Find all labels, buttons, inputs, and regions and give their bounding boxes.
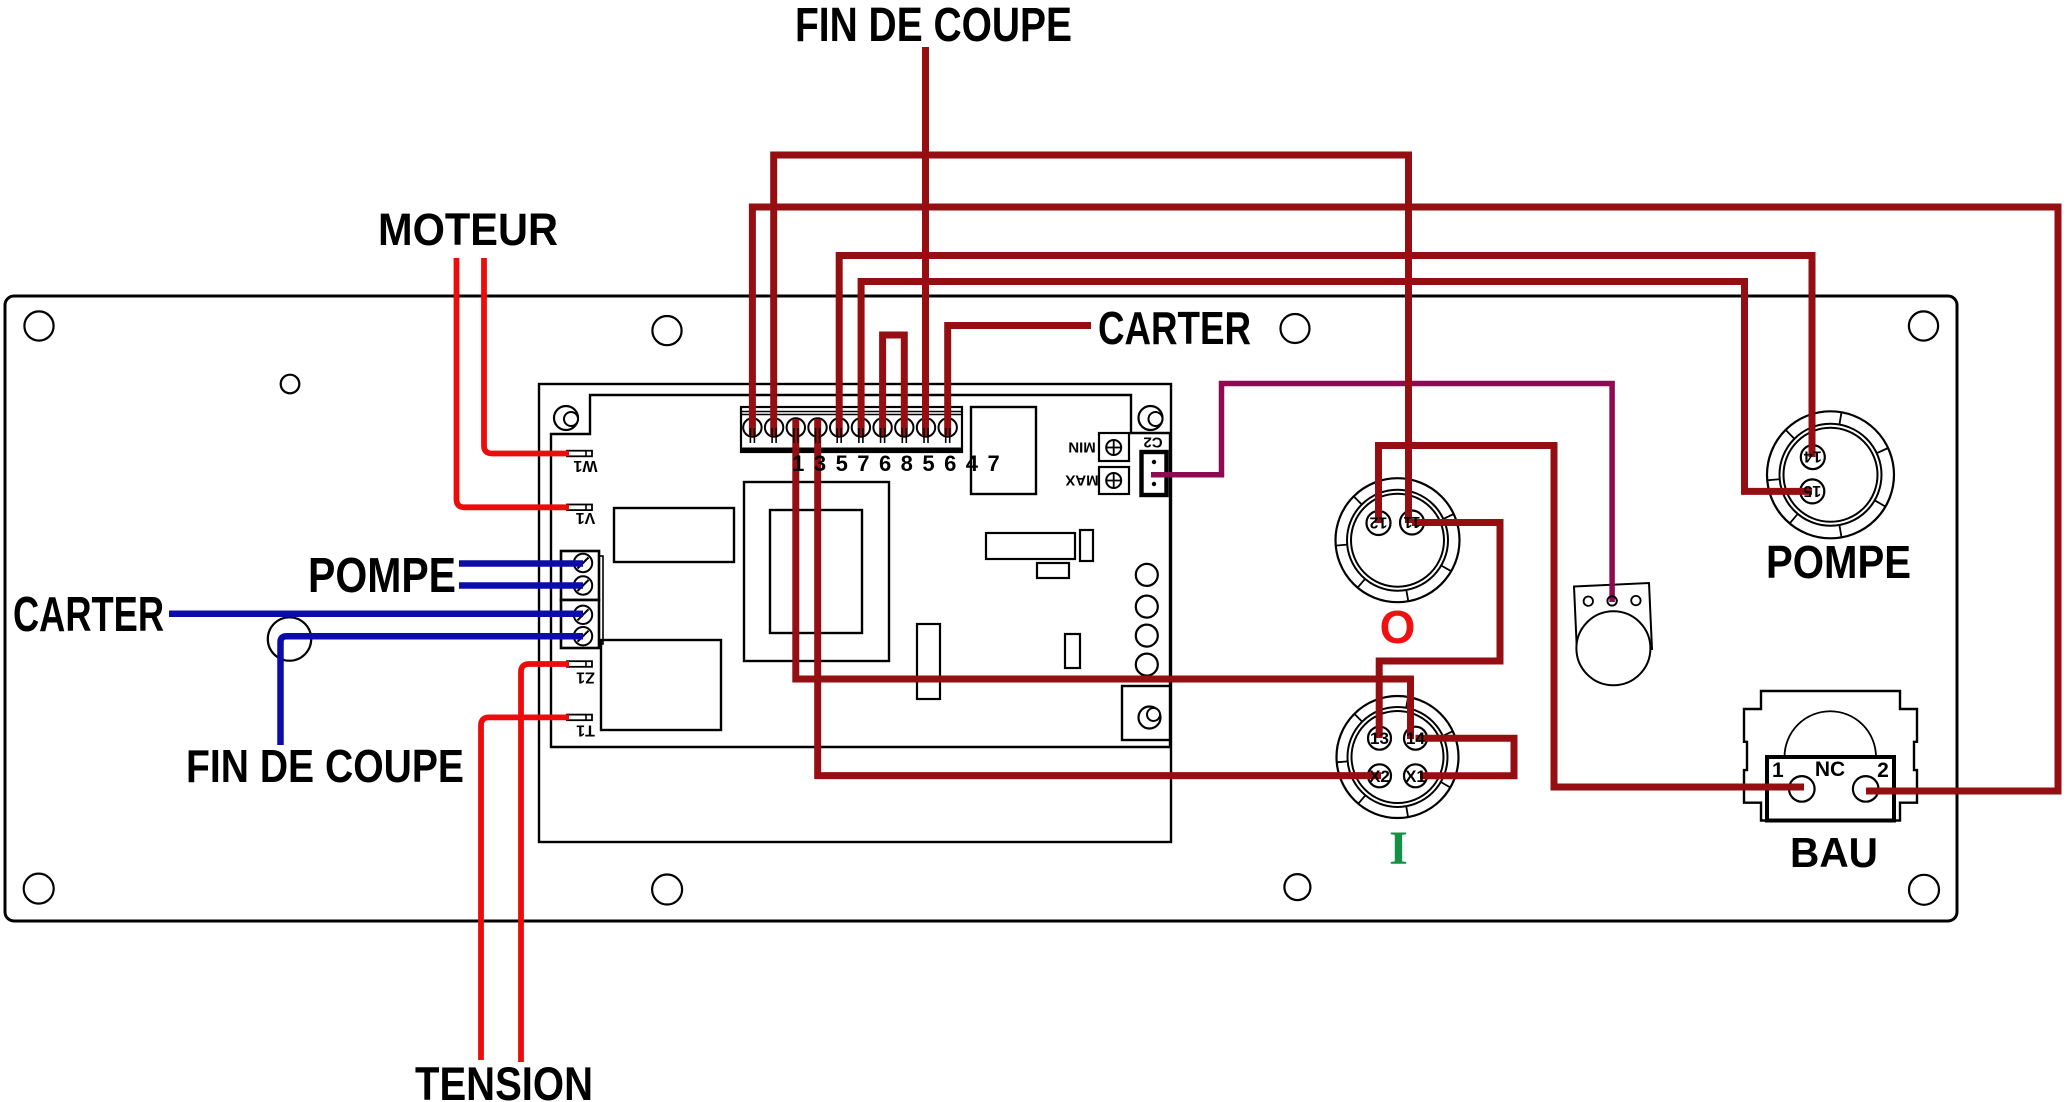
svg-text:BAU: BAU: [1790, 829, 1878, 876]
BAU cutout outline: [1744, 691, 1917, 821]
svg-text:13: 13: [1370, 729, 1389, 748]
hole bottom-left: [24, 874, 54, 904]
I pin 13: [1368, 727, 1391, 750]
svg-text:5: 5: [922, 451, 934, 476]
svg-text:CARTER: CARTER: [1098, 302, 1251, 354]
wire O pin11 to I pin13: [1379, 523, 1500, 739]
svg-text:FIN DE COUPE: FIN DE COUPE: [186, 740, 464, 792]
transformer outer: [744, 482, 889, 661]
spade terminal W1: [567, 451, 592, 457]
capacitor slot 2: [1065, 634, 1080, 668]
C2 pin dot 2: [1152, 482, 1156, 486]
svg-text:1: 1: [1772, 759, 1784, 782]
hole bottom mid-1: [652, 875, 682, 905]
strip screw slot 6: [858, 428, 860, 443]
buzzer hole mid: [1607, 596, 1616, 605]
LED 1: [1136, 564, 1158, 586]
wire FIN DE COUPE drop: [922, 47, 929, 436]
strip screw slot 10: [945, 428, 947, 443]
strip screw slot 8: [901, 428, 903, 443]
POMPE pin 15: [1800, 479, 1824, 503]
svg-text:X2: X2: [1369, 767, 1390, 786]
PCB screw top-right: [1139, 406, 1163, 430]
strip screw 4: [808, 418, 826, 436]
strip screw 10: [939, 418, 957, 436]
PCB board outline: [551, 395, 1170, 747]
strip screw slot 4: [815, 428, 817, 443]
trimmer MAX: [1099, 467, 1129, 494]
POMPE pin 14: [1801, 445, 1825, 469]
connector POMPE: [1767, 411, 1894, 538]
wire strip5 to POMPE pin14: [839, 256, 1812, 458]
svg-text:TENSION: TENSION: [415, 1057, 593, 1102]
block screw 1: [574, 554, 592, 572]
svg-text:C2: C2: [1143, 434, 1162, 451]
wire strip6 to POMPE pin15: [861, 282, 1812, 492]
connector O (arret): [1336, 478, 1460, 602]
IC component: [986, 533, 1075, 559]
wire TENSION wire Z1: [521, 664, 569, 1062]
svg-text:NC: NC: [1815, 758, 1845, 781]
wire C2 to buzzer: [1151, 384, 1612, 603]
buzzer body: [1576, 611, 1650, 685]
spade terminal Z1: [567, 661, 592, 667]
relay K2: [601, 640, 721, 730]
O pin 12: [1367, 511, 1391, 535]
hole top mid-2: [1281, 314, 1310, 343]
I pin 14: [1404, 727, 1427, 750]
wire POMPE wire 1: [459, 560, 583, 567]
wire MOTEUR wire W1: [484, 258, 569, 454]
hole top-right: [1909, 311, 1938, 340]
svg-text:3: 3: [814, 451, 826, 476]
svg-text:POMPE: POMPE: [1766, 536, 1911, 588]
strip screw 2: [765, 418, 783, 436]
small part 2: [1037, 563, 1069, 578]
wire O pin12 to BAU pin1: [1379, 446, 1805, 788]
svg-text:FIN DE COUPE: FIN DE COUPE: [795, 0, 1072, 52]
LED 3: [1136, 625, 1158, 647]
buzzer hole mid redraw: [1607, 596, 1616, 605]
hole top-left: [24, 311, 53, 340]
svg-text:5: 5: [836, 451, 848, 476]
svg-text:12: 12: [1370, 513, 1388, 530]
wire I pin14 to X1 jumper: [1416, 738, 1515, 776]
svg-text:W1: W1: [573, 457, 597, 474]
svg-text:X1: X1: [1405, 767, 1426, 786]
LED 4: [1136, 654, 1158, 676]
strip screw 3: [787, 418, 805, 436]
svg-text:6: 6: [944, 451, 956, 476]
strip screw 9: [917, 418, 935, 436]
spade terminal V1: [567, 505, 592, 511]
terminal strip X1: [741, 407, 962, 452]
strip screw slot 3: [793, 428, 795, 443]
buzzer hole left: [1584, 597, 1593, 606]
buzzer bracket: [1574, 583, 1652, 653]
strip screw 7: [873, 418, 891, 436]
hole bottom mid-2: [1284, 874, 1310, 900]
hole bottom-right: [1909, 875, 1939, 905]
svg-text:4: 4: [966, 451, 979, 476]
svg-text:V1: V1: [576, 509, 596, 526]
wire strip2 to O pin11: [774, 155, 1409, 523]
connector C2: [1142, 452, 1167, 495]
terminal block pompe/carter: [561, 551, 599, 600]
mounting panel outline: [5, 296, 1957, 921]
svg-text:7: 7: [857, 451, 869, 476]
wire POMPE wire 2: [459, 582, 583, 589]
svg-text:MAX: MAX: [1065, 472, 1098, 489]
svg-text:CARTER: CARTER: [13, 588, 164, 642]
wire FIN DE COUPE wire: [281, 636, 584, 745]
spade terminal T1: [567, 715, 592, 721]
capacitor slot 1: [917, 624, 940, 699]
I pin X2: [1368, 764, 1391, 787]
wire strip10 to CARTER: [948, 326, 1091, 437]
PCB screw block bottom-right: [1122, 686, 1170, 740]
PCB mounting plate: [539, 384, 1171, 842]
svg-text:8: 8: [901, 451, 913, 476]
block screw 4: [574, 627, 592, 645]
svg-text:6: 6: [879, 451, 891, 476]
svg-text:MOTEUR: MOTEUR: [378, 204, 558, 255]
strip screw 8: [895, 418, 913, 436]
svg-text:14: 14: [1406, 729, 1425, 748]
svg-text:POMPE: POMPE: [308, 549, 456, 603]
strip screw 1: [743, 418, 761, 436]
strip screw 6: [852, 418, 870, 436]
buzzer hole right: [1631, 596, 1640, 605]
hole top mid-1: [652, 316, 681, 345]
strip screw slot 5: [836, 428, 838, 443]
svg-text:11: 11: [1403, 513, 1420, 530]
transformer core: [770, 510, 862, 633]
wire strip7-strip8 jumper: [883, 335, 905, 436]
C2 pin dot 1: [1152, 460, 1156, 464]
block screw 3: [574, 606, 592, 624]
svg-text:15: 15: [1803, 482, 1821, 499]
BAU terminal body: [1767, 757, 1894, 821]
strip screw slot 2: [771, 428, 773, 443]
I pin X1: [1404, 764, 1427, 787]
hole top small: [281, 375, 300, 394]
svg-text:2: 2: [1877, 759, 1889, 782]
svg-text:O: O: [1380, 601, 1416, 653]
O pin 11: [1400, 511, 1424, 535]
svg-text:I: I: [1389, 822, 1408, 875]
hole left mid: [268, 617, 311, 660]
wire strip4 to I pinX2: [818, 419, 1381, 776]
wire MOTEUR wire V1: [457, 258, 570, 507]
svg-text:Z1: Z1: [576, 668, 595, 685]
svg-text:T1: T1: [576, 721, 595, 738]
BAU dome: [1785, 711, 1877, 757]
wire strip1 to BAU pin2: [752, 207, 2058, 791]
svg-text:14: 14: [1804, 447, 1822, 464]
svg-text:7: 7: [987, 451, 999, 476]
strip screw 5: [830, 418, 848, 436]
wire strip3 to I pin14: [796, 419, 1411, 739]
LED 2: [1136, 596, 1158, 618]
strip screw slot 1: [749, 428, 751, 443]
small part: [1080, 530, 1093, 561]
PCB screw top-left: [554, 406, 578, 430]
BAU pin 2: [1853, 776, 1879, 802]
wire TENSION wire T1: [481, 717, 569, 1060]
component box right of strip: [971, 407, 1036, 494]
strip screw slot 7: [880, 428, 882, 443]
svg-text:1: 1: [792, 451, 804, 476]
trimmer MIN: [1099, 433, 1129, 461]
svg-text:MIN: MIN: [1068, 439, 1096, 456]
strip screw slot 9: [923, 428, 925, 443]
relay K1: [614, 508, 734, 562]
connector I (marche): [1337, 696, 1459, 818]
BAU pin 1: [1789, 776, 1815, 802]
wire CARTER wire: [169, 611, 583, 618]
block screw 2: [574, 576, 592, 594]
